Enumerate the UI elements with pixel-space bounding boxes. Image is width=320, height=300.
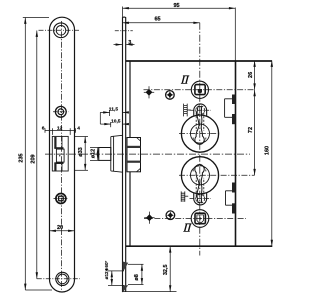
- svg-text:72: 72: [248, 127, 254, 133]
- II labels: [181, 76, 192, 232]
- svg-text:160: 160: [264, 146, 270, 155]
- latch block in case: [127, 138, 141, 172]
- cylinder 2 europrofile (mirrored): [181, 157, 218, 205]
- latch cutout inner detail: [61, 136, 63, 149]
- svg-text:65: 65: [155, 17, 161, 23]
- svg-text:4: 4: [77, 125, 80, 131]
- screw hole 2: [55, 106, 66, 117]
- latch tip edge view: [99, 148, 111, 161]
- striker pads upper: [225, 95, 236, 125]
- bottom screw hole: [56, 272, 69, 285]
- svg-text:3: 3: [128, 40, 131, 46]
- dim o12: [90, 147, 100, 149]
- case front edge: [129, 61, 131, 138]
- faceplate front view outline: [50, 17, 75, 292]
- dim o8: [128, 263, 144, 265]
- case bottom edge: [126, 245, 272, 247]
- case back edge: [235, 61, 237, 246]
- bottom hole horizontal centerline: [37, 278, 80, 280]
- text labels: [128, 3, 179, 46]
- follower2 h centerline: [144, 218, 246, 220]
- countersink wedge upper: [123, 262, 129, 272]
- svg-text:ø12∗60°: ø12∗60°: [104, 260, 109, 279]
- long middle centerline: [45, 153, 250, 155]
- dim 95: [123, 7, 236, 9]
- follower1 h centerline: [144, 89, 255, 91]
- follower 1: [191, 81, 208, 98]
- dim 235: [23, 17, 49, 19]
- dim 26: [254, 61, 256, 90]
- dim 6 12 4: [45, 130, 76, 132]
- dim 72: [254, 90, 256, 176]
- cylinder2 h centerline: [179, 174, 255, 176]
- dim 160: [271, 61, 273, 247]
- cylinder 1 europrofile: [181, 104, 218, 152]
- dim 11.5: [100, 111, 109, 113]
- dim o33: [74, 136, 88, 138]
- striker pads lower: [226, 183, 236, 214]
- diamond marker lower: [144, 212, 154, 224]
- svg-text:26: 26: [248, 72, 254, 78]
- svg-text:12: 12: [57, 125, 63, 131]
- svg-text:ø8: ø8: [134, 274, 140, 280]
- svg-text:11,5: 11,5: [109, 107, 119, 113]
- circled star upper: [166, 91, 175, 100]
- main vertical centerline: [199, 23, 201, 256]
- dim 32.5: [169, 246, 171, 291]
- svg-text:10,5: 10,5: [111, 119, 121, 125]
- latch tip in cutout: [56, 149, 64, 162]
- latch head edge view: [111, 135, 123, 172]
- svg-text:235: 235: [19, 153, 25, 162]
- cylinder1 h centerline: [179, 133, 220, 135]
- ext line above case back: [234, 8, 236, 61]
- dim 3: [114, 44, 123, 46]
- dim 20: [50, 230, 75, 232]
- svg-text:20: 20: [57, 225, 63, 231]
- faceplate vertical centerline: [61, 21, 63, 290]
- circled star lower: [166, 211, 175, 220]
- spring detail lower: [181, 191, 188, 201]
- latch cutout outer: [52, 136, 68, 171]
- svg-text:32,5: 32,5: [163, 264, 169, 275]
- top screw hole: [54, 23, 69, 38]
- svg-text:95: 95: [174, 3, 180, 9]
- faceplate edge view: [123, 17, 126, 292]
- spring detail upper: [184, 104, 191, 117]
- case top edge: [126, 60, 272, 62]
- dim 209: [36, 31, 38, 279]
- hole 3: [56, 194, 66, 204]
- countersink dim o12x60: [108, 270, 124, 272]
- dim 65: [123, 22, 200, 24]
- plate edge hole1 centerline dashes: [115, 30, 133, 32]
- svg-text:6: 6: [42, 125, 45, 131]
- follower 2: [191, 210, 209, 228]
- top hole horizontal centerline: [39, 29, 80, 31]
- countersink wedge lower: [123, 285, 129, 292]
- svg-text:ø33: ø33: [78, 147, 84, 156]
- diamond marker upper: [144, 86, 154, 98]
- svg-text:209: 209: [30, 154, 36, 163]
- dim 10.5: [100, 123, 110, 125]
- svg-text:ø12: ø12: [90, 149, 96, 158]
- ext line above faceplate: [122, 7, 124, 18]
